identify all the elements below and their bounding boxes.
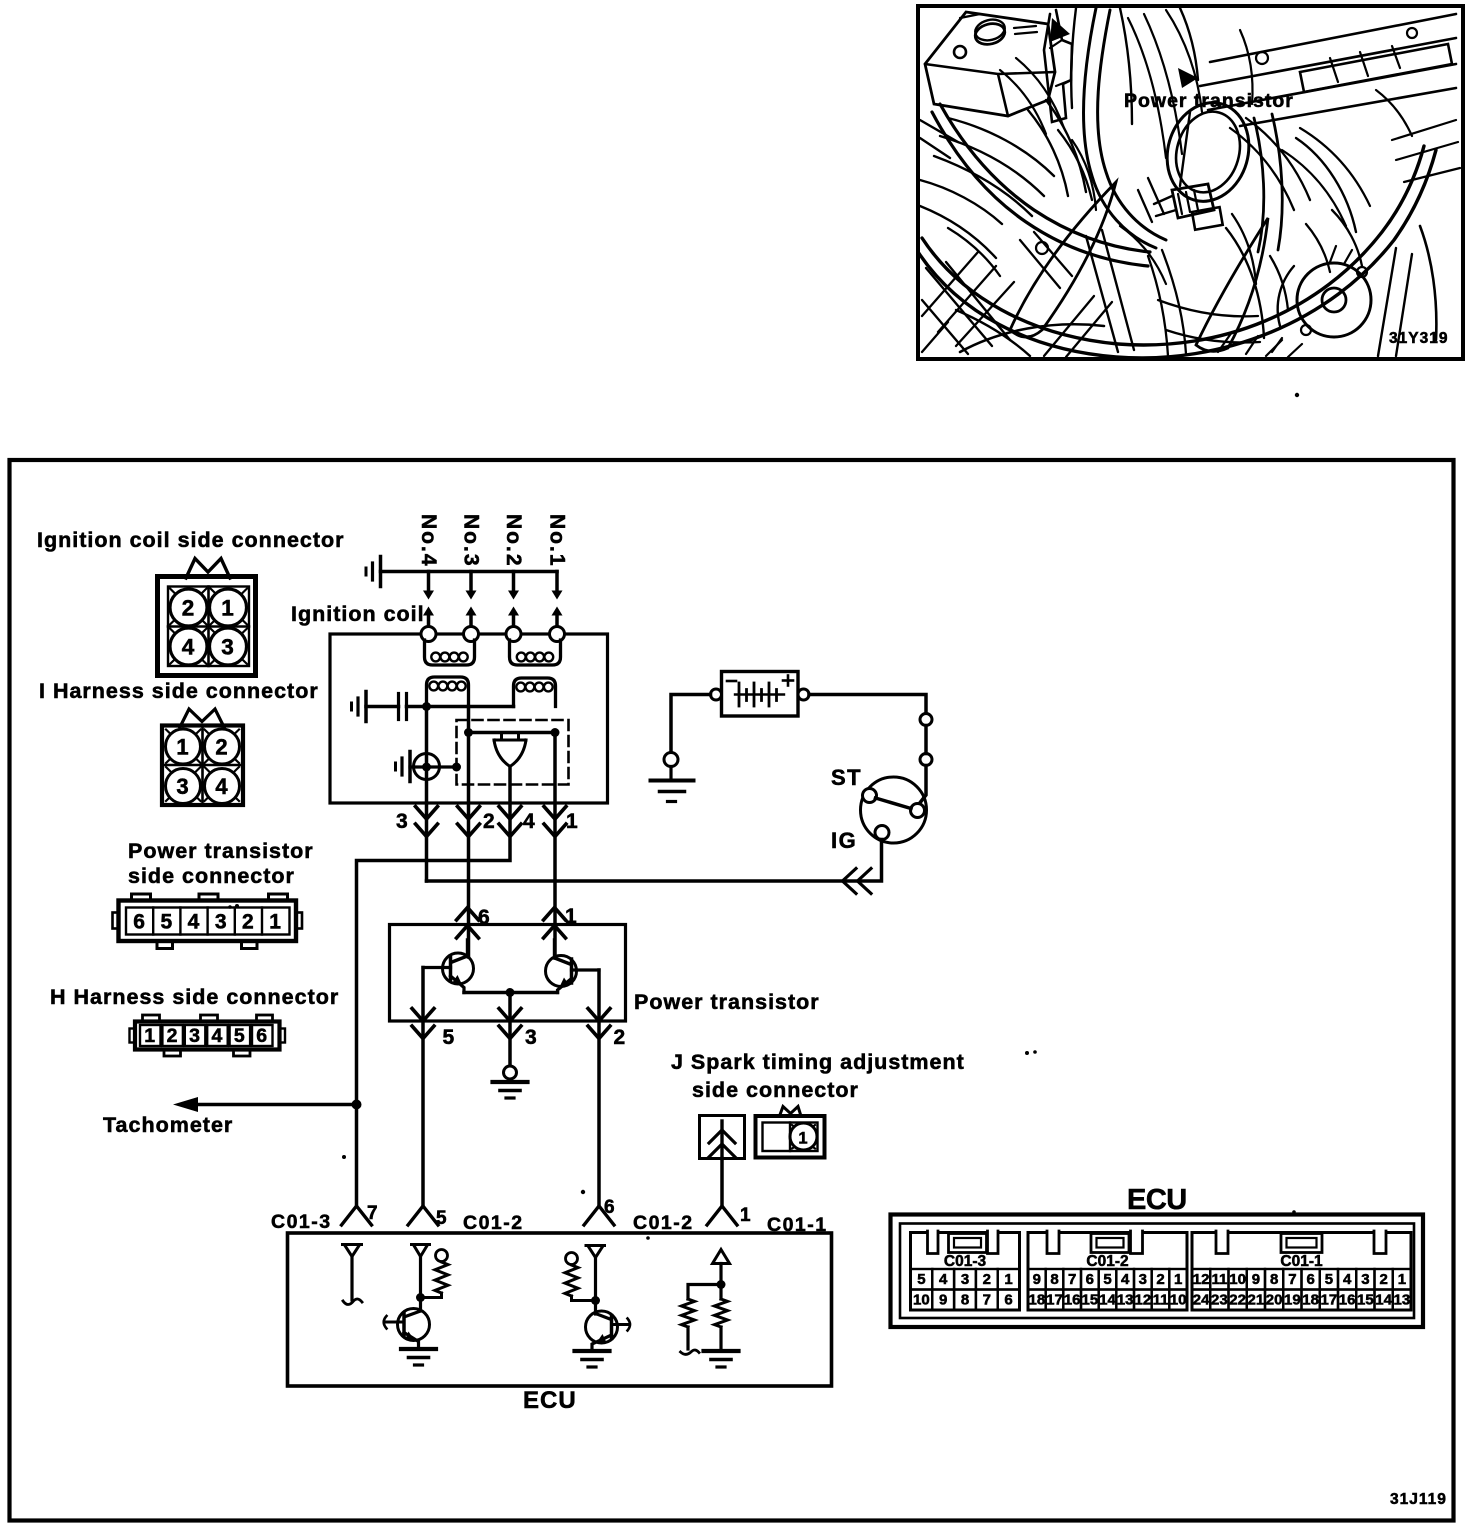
svg-text:ST: ST [831, 765, 862, 790]
mid extra texture [1000, 58, 1064, 134]
svg-text:1: 1 [221, 596, 235, 621]
svg-text:16: 16 [1064, 1292, 1081, 1309]
I harness side connector (4-pin) [180, 709, 224, 727]
J connector harness side (square with chevrons) [700, 1116, 745, 1159]
PT input connector arrow 6 [457, 908, 479, 939]
svg-text:3: 3 [1139, 1271, 1147, 1288]
ECU transistor Q4 [586, 1311, 618, 1343]
svg-text:20: 20 [1266, 1292, 1283, 1309]
pullup resistor 3 [565, 1265, 578, 1296]
transistor Q2 [546, 956, 577, 987]
svg-text:4: 4 [1121, 1271, 1130, 1288]
svg-text:7: 7 [983, 1292, 991, 1309]
ECU pin fork 1 (C01-1) [707, 1206, 737, 1225]
svg-text:ECU: ECU [523, 1387, 577, 1414]
junction wire1 / module [551, 728, 560, 737]
secondary winding A (top-left) [425, 640, 475, 665]
svg-text:5: 5 [443, 1026, 456, 1049]
svg-text:No.3: No.3 [460, 514, 483, 568]
svg-text:10: 10 [913, 1292, 930, 1309]
divider branch wire [688, 1285, 721, 1300]
svg-text:13: 13 [1117, 1292, 1134, 1309]
svg-text:4: 4 [215, 774, 228, 799]
svg-text:Tachometer: Tachometer [103, 1113, 233, 1137]
PT connector pin 5 arrow [412, 1009, 434, 1039]
ECU input 4: open triangle [713, 1250, 730, 1264]
connector group C01-3 [911, 1233, 1020, 1311]
ECU transistor Q4 ground [575, 1349, 610, 1353]
svg-text:2: 2 [1379, 1271, 1387, 1288]
ECU input 3: triangle [586, 1244, 605, 1247]
svg-text:31Y319: 31Y319 [1389, 330, 1448, 347]
PT ground circle [504, 1066, 517, 1079]
PT ground [493, 1080, 528, 1084]
connector group C01-1 [1192, 1233, 1411, 1311]
svg-text:6: 6 [604, 1197, 616, 1218]
PT input connector arrow 1 [544, 908, 566, 939]
svg-text:5: 5 [234, 1025, 246, 1047]
svg-text:14: 14 [1375, 1292, 1392, 1309]
svg-text:C01-2: C01-2 [1086, 1253, 1128, 1270]
throttle body circle [1156, 93, 1260, 211]
wire into switch [919, 766, 926, 805]
H harness side connector (6-pin) [143, 1015, 160, 1022]
ignition coil side connector (4-pin) [186, 559, 230, 579]
inline connector circles [920, 714, 932, 726]
svg-text:18: 18 [1028, 1292, 1045, 1309]
misc wires [1128, 18, 1166, 158]
svg-text:15: 15 [1357, 1292, 1374, 1309]
ECU connector outer shell [891, 1215, 1424, 1328]
bracket strut [1044, 10, 1072, 122]
IG wire down and left to coil [427, 840, 882, 882]
svg-text:5: 5 [436, 1208, 448, 1229]
svg-text:21: 21 [1248, 1292, 1265, 1309]
switch lever [876, 798, 912, 809]
resistor R2 ground [704, 1349, 739, 1353]
svg-text:3: 3 [176, 774, 189, 799]
input 2 wire [419, 1257, 422, 1312]
feed wire to spark plug arrows [381, 570, 558, 574]
svg-text:6: 6 [256, 1025, 268, 1047]
secondary winding B (top-right) [510, 640, 561, 665]
capacitor ground [364, 692, 368, 722]
coil terminal circle No.2 [506, 627, 521, 642]
right lower hatch [1392, 120, 1460, 182]
ECU pin fork 6 (C01-2) [584, 1206, 614, 1225]
ECU box [288, 1233, 832, 1386]
capacitor wire [366, 705, 399, 709]
svg-text:10: 10 [1229, 1271, 1246, 1288]
engine photo frame [918, 6, 1463, 359]
svg-text:No.2: No.2 [502, 514, 525, 568]
svg-text:2: 2 [983, 1271, 991, 1288]
primary winding B (lower-right) [514, 678, 556, 707]
svg-text:5: 5 [1325, 1271, 1333, 1288]
wire 3 (primary A left, down to IG line) [425, 707, 429, 882]
power transistor side connector (6-pin) [132, 894, 151, 901]
svg-text:4: 4 [1343, 1271, 1352, 1288]
svg-text:31J119: 31J119 [1390, 1491, 1447, 1508]
ECU pin fork 5 (C01-2) [408, 1206, 438, 1225]
wire 2 (primary A right, down to power transistor pin 6) [467, 707, 471, 958]
pullup circle 3 [566, 1253, 578, 1265]
svg-text:23: 23 [1211, 1292, 1228, 1309]
svg-text:3: 3 [961, 1271, 969, 1288]
coil connector pin 2 arrow [458, 807, 480, 837]
svg-text:No.4: No.4 [417, 514, 440, 568]
svg-text:4: 4 [939, 1271, 948, 1288]
svg-text:5: 5 [160, 911, 173, 934]
wire 1 (primary B right, down to power transistor pin 1) [553, 733, 557, 958]
svg-text:1: 1 [176, 735, 189, 760]
svg-text:C01-2: C01-2 [633, 1212, 694, 1234]
spark plug lead arrow No.1 (down) [555, 572, 559, 592]
scan specks [1295, 393, 1299, 397]
switch contact ST [863, 789, 877, 803]
ECU input 1: open line [343, 1243, 362, 1246]
svg-text:3: 3 [1361, 1271, 1369, 1288]
svg-text:2: 2 [182, 596, 196, 621]
svg-text:side connector: side connector [128, 864, 295, 888]
svg-text:3: 3 [396, 810, 409, 833]
coil terminal circle No.3 [464, 627, 479, 642]
svg-text:4: 4 [211, 1025, 223, 1047]
outer diagram border [10, 460, 1454, 1521]
svg-text:1: 1 [1174, 1271, 1182, 1288]
J connector component side [780, 1107, 802, 1117]
svg-text:Ignition coil side connector: Ignition coil side connector [37, 528, 345, 552]
inline connector chevrons on IG wire [843, 869, 872, 894]
battery terminal circles [711, 689, 722, 700]
distributor circle bottom right [1297, 263, 1371, 337]
svg-text:1: 1 [269, 911, 282, 934]
power transistor box [390, 925, 626, 1022]
svg-text:9: 9 [1252, 1271, 1260, 1288]
wire base Q1 to pin 5 [421, 968, 425, 1207]
coil tower arrow No.4 (up) [423, 607, 434, 616]
resistor R1 (left) [682, 1299, 695, 1327]
top-middle cable loops [1166, 10, 1202, 112]
svg-text:I Harness side connector: I Harness side connector [39, 679, 319, 703]
svg-text:3: 3 [221, 635, 235, 660]
svg-text:15: 15 [1081, 1292, 1098, 1309]
svg-text:7: 7 [367, 1203, 379, 1224]
battery ground circle [664, 753, 678, 767]
svg-text:Ignition coil: Ignition coil [291, 602, 425, 626]
svg-text:3: 3 [189, 1025, 201, 1047]
spark gap circle [414, 754, 440, 780]
PT connector pin 3 arrow [499, 1009, 521, 1039]
PT connector pin 2 arrow [588, 1009, 610, 1039]
svg-text:12: 12 [1193, 1271, 1210, 1288]
air cleaner box [925, 12, 1055, 116]
svg-text:5: 5 [917, 1271, 925, 1288]
svg-text:ECU: ECU [1127, 1184, 1187, 1216]
battery box [722, 672, 799, 717]
battery positive wire [809, 695, 926, 714]
svg-text:1: 1 [740, 1205, 752, 1226]
diode element in module [494, 734, 526, 767]
tachometer arrow [196, 1103, 357, 1107]
svg-text:2: 2 [167, 1025, 179, 1047]
lower engine ribs left [922, 262, 1010, 354]
svg-text:1: 1 [144, 1025, 156, 1047]
connector group C01-2 [1028, 1233, 1187, 1311]
svg-text:2: 2 [242, 911, 255, 934]
battery minus sign [727, 680, 736, 683]
svg-text:11: 11 [1211, 1271, 1227, 1288]
svg-text:14: 14 [1099, 1292, 1116, 1309]
svg-text:Power transistor: Power transistor [128, 839, 314, 863]
svg-text:11: 11 [1153, 1292, 1169, 1309]
svg-text:H Harness side connector: H Harness side connector [50, 985, 339, 1009]
junction wire2 / module [464, 728, 473, 737]
svg-text:2: 2 [215, 735, 228, 760]
svg-text:3: 3 [525, 1026, 538, 1049]
transistor Q1 [443, 953, 474, 984]
capacitor C1 [397, 694, 400, 720]
spark gap ground [408, 752, 412, 782]
svg-text:8: 8 [1050, 1271, 1058, 1288]
svg-text:C01-1: C01-1 [1280, 1253, 1323, 1270]
module top bus [469, 731, 556, 735]
svg-text:IG: IG [831, 828, 857, 853]
battery ground [669, 767, 672, 780]
coil terminal circle No.1 [550, 627, 565, 642]
svg-text:24: 24 [1193, 1292, 1210, 1309]
power transistor connector cluster [1172, 184, 1214, 218]
ECU input 2: triangle [412, 1243, 430, 1246]
junction primary A left [422, 702, 431, 711]
bottom extra [1218, 332, 1282, 354]
svg-text:6: 6 [1004, 1292, 1012, 1309]
pointer line from label [1180, 112, 1190, 186]
svg-text:7: 7 [1288, 1271, 1296, 1288]
emitter common bus [464, 991, 558, 995]
coil connector pin 4 arrow [499, 807, 521, 837]
spark plug lead arrow No.4 (down) [427, 572, 431, 592]
ECU transistor Q3 ground [401, 1347, 436, 1351]
wire J connector to ECU pin 1 [720, 1159, 724, 1207]
ignition coil box [330, 634, 608, 803]
ECU pin fork 7 (C01-3) [342, 1206, 372, 1225]
svg-text:4: 4 [188, 911, 201, 934]
svg-text:1: 1 [1004, 1271, 1012, 1288]
coil connector pin 3 arrow [416, 807, 438, 837]
svg-text:Power transistor: Power transistor [1124, 90, 1294, 112]
svg-text:6: 6 [1086, 1271, 1094, 1288]
resistor R2 (right) [719, 1285, 722, 1300]
battery cells [735, 693, 784, 695]
coil tower arrow No.2 (up) [508, 607, 519, 616]
svg-text:22: 22 [1229, 1292, 1246, 1309]
spark plug lead arrow No.3 (down) [469, 572, 473, 592]
fan blade wedge 2 [1196, 218, 1268, 351]
svg-text:1: 1 [566, 810, 579, 833]
svg-text:17: 17 [1046, 1292, 1063, 1309]
spark plug lead arrow No.2 (down) [512, 572, 516, 592]
svg-text:4: 4 [182, 635, 196, 660]
svg-text:2: 2 [1156, 1271, 1164, 1288]
primary winding A (lower-left) [427, 677, 469, 707]
bottom-left hatch [922, 252, 1014, 352]
left fender lines [920, 120, 1002, 224]
svg-text:12: 12 [1134, 1292, 1151, 1309]
coil tower arrow No.1 (up) [552, 607, 563, 616]
ground (top of ignition coil feed line) [379, 557, 383, 587]
center extra wires [1148, 250, 1186, 356]
svg-text:6: 6 [1306, 1271, 1314, 1288]
svg-text:7: 7 [1068, 1271, 1076, 1288]
plenum ribs left-center [934, 118, 1054, 216]
svg-text:C01-3: C01-3 [944, 1253, 987, 1270]
svg-text:6: 6 [133, 911, 146, 934]
svg-text:19: 19 [1284, 1292, 1301, 1309]
junction emitter bus [506, 988, 515, 997]
svg-text:3: 3 [215, 911, 228, 934]
valve cover ribs top right [1200, 14, 1456, 126]
svg-text:No.1: No.1 [546, 514, 569, 568]
svg-text:1: 1 [1398, 1271, 1406, 1288]
battery negative wire [671, 695, 711, 753]
svg-text:2: 2 [614, 1026, 627, 1049]
wire common to pin 3 [508, 993, 512, 1067]
right side hoses [1254, 114, 1282, 252]
svg-text:9: 9 [1033, 1271, 1041, 1288]
svg-text:16: 16 [1339, 1292, 1356, 1309]
svg-text:13: 13 [1394, 1292, 1411, 1309]
big heater hose sweeping curve [922, 146, 1424, 345]
center engine details [1232, 214, 1288, 310]
input 3 wire [594, 1258, 597, 1315]
svg-text:18: 18 [1302, 1292, 1319, 1309]
pullup resistor 2 [435, 1262, 448, 1293]
svg-text:4: 4 [523, 810, 536, 833]
switch contact IG [875, 826, 889, 840]
dashed internal module box [457, 720, 569, 785]
svg-text:J Spark timing adjustment: J Spark timing adjustment [671, 1050, 965, 1074]
svg-text:Power transistor: Power transistor [634, 990, 820, 1014]
top-center cables [1071, 8, 1132, 124]
wire 4 (diode out, to ECU C01-3/7 line) [357, 767, 511, 1207]
svg-text:side connector: side connector [692, 1078, 859, 1102]
svg-text:C01-2: C01-2 [463, 1212, 524, 1234]
wire capacitor to primary windings [407, 705, 514, 709]
coil terminal circle No.4 [421, 627, 436, 642]
svg-text:1: 1 [798, 1130, 808, 1148]
wire base Q2 to pin 2 [597, 970, 601, 1206]
svg-text:8: 8 [961, 1292, 969, 1309]
svg-text:9: 9 [939, 1292, 947, 1309]
pullup circle 2 [436, 1250, 448, 1262]
svg-text:C01-3: C01-3 [271, 1211, 332, 1233]
svg-text:10: 10 [1170, 1292, 1187, 1309]
ignition switch circle [861, 777, 927, 843]
svg-text:2: 2 [483, 810, 496, 833]
hose from air cleaner [940, 104, 1150, 252]
ECU transistor Q3 [398, 1309, 430, 1341]
coil tower arrow No.3 (up) [466, 607, 477, 616]
coil connector pin 1 arrow [544, 807, 566, 837]
spark gap wire to module [410, 765, 457, 768]
svg-text:8: 8 [1270, 1271, 1278, 1288]
battery plus sign [783, 679, 793, 682]
svg-text:5: 5 [1103, 1271, 1111, 1288]
upper radiator hose [1084, 8, 1156, 248]
switch contact battery side [911, 804, 925, 818]
svg-text:17: 17 [1321, 1292, 1338, 1309]
fan blade wedge 1 [1010, 182, 1116, 337]
